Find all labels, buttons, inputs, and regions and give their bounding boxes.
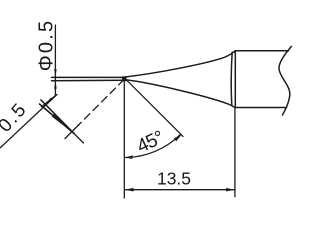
dim line A (0.5) <box>0 95 57 149</box>
leader arrow <box>46 98 53 104</box>
vertical extension from junction <box>123 80 125 198</box>
right extension line <box>234 109 236 197</box>
phi dim leader kink <box>42 96 56 107</box>
svg-text:Φ0.5: Φ0.5 <box>35 19 57 72</box>
45 deg diagonal <box>125 78 184 136</box>
arc arrow bottom-left <box>125 155 133 159</box>
rim left edge <box>231 52 232 105</box>
svg-text:13.5: 13.5 <box>157 169 191 189</box>
wedge arrow upper line <box>41 100 74 134</box>
phi arrow down (above needle) <box>54 69 57 77</box>
wedge fill tip <box>52 113 74 133</box>
break wavy line <box>279 46 291 115</box>
13.5 right arrow <box>226 188 234 192</box>
angle arc <box>125 134 181 157</box>
wire <box>52 46 292 115</box>
wedge arrow lower line <box>40 104 75 134</box>
dashed construction line final dash <box>65 125 79 139</box>
needle top line <box>52 76 125 78</box>
cylinder bottom <box>235 107 286 109</box>
phi dim vertical line <box>54 25 56 96</box>
13.5 left arrow <box>125 188 133 192</box>
cylinder top <box>235 50 288 52</box>
phi arrow up (below needle) <box>54 81 57 89</box>
junction knot <box>122 76 127 81</box>
13.5 dimension line <box>125 189 234 191</box>
bell bottom curve <box>125 80 235 108</box>
bell top curve <box>125 51 236 77</box>
rim right edge <box>234 51 236 108</box>
wedge overshoot <box>74 134 84 144</box>
arc arrow top-right <box>174 135 182 141</box>
dashed construction line 45 <box>78 80 124 126</box>
needle bottom line <box>52 79 125 82</box>
